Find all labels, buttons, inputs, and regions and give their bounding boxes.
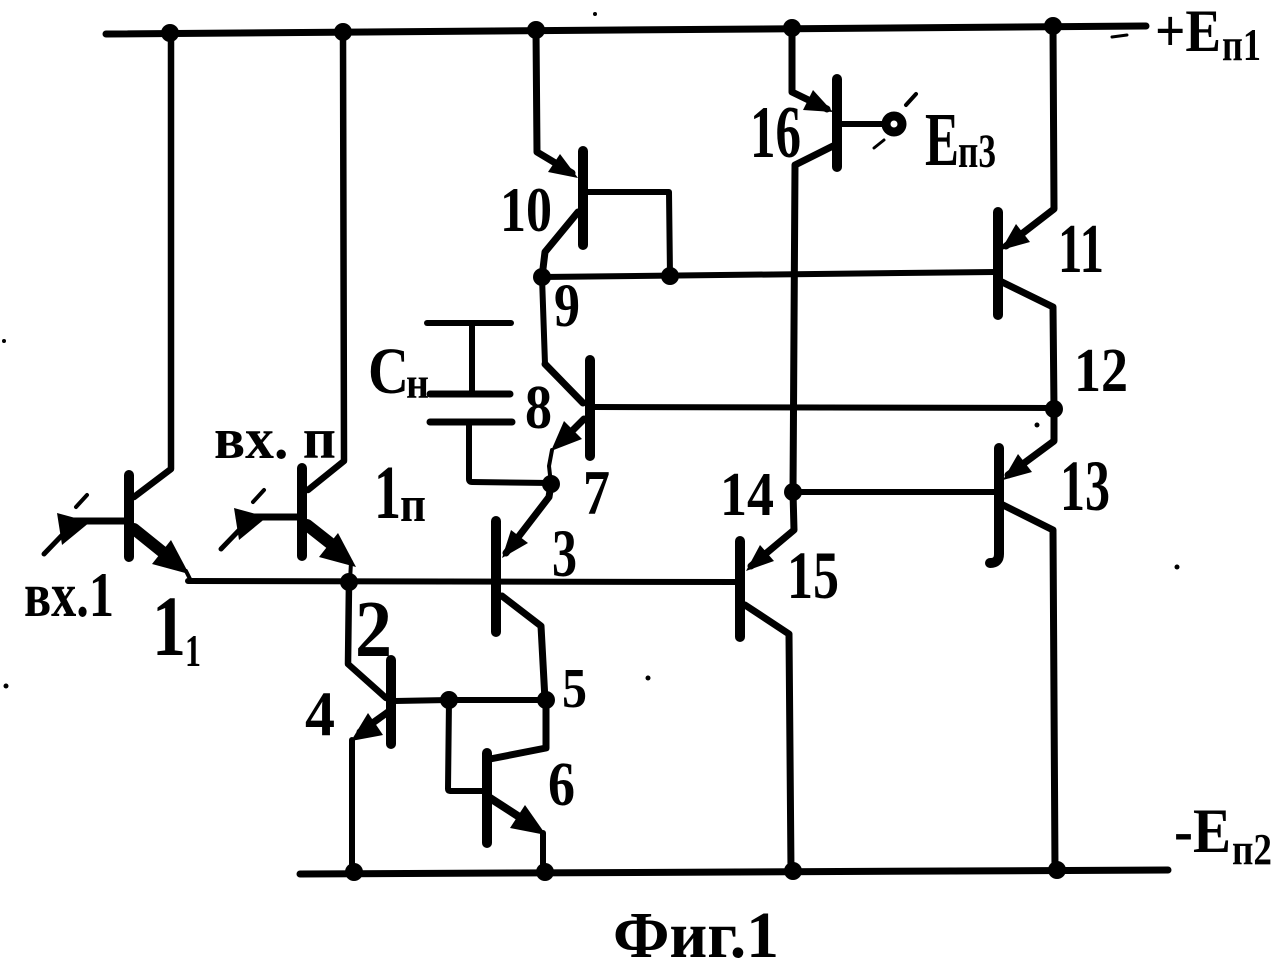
svg-text:8: 8	[525, 374, 552, 442]
svg-text:Фиг.1: Фиг.1	[613, 899, 779, 968]
svg-text:С: С	[368, 335, 409, 408]
junction top rail / T1-1 collector	[161, 24, 179, 42]
svg-text:12: 12	[1074, 337, 1128, 405]
svg-text:6: 6	[548, 751, 575, 819]
label 1p	[374, 451, 426, 535]
label -Ep2	[1174, 795, 1272, 874]
svg-text:9: 9	[554, 273, 580, 340]
svg-text:13: 13	[1060, 446, 1110, 526]
wire node 14 to T13 base	[793, 489, 995, 495]
svg-text:7: 7	[583, 457, 610, 528]
svg-text:5: 5	[562, 658, 587, 720]
transistor 16 PNP	[792, 28, 884, 492]
svg-text:1: 1	[374, 451, 401, 535]
junction T10 base drop	[661, 267, 679, 285]
svg-text:1: 1	[185, 625, 201, 676]
node 7 junction	[542, 475, 560, 493]
svg-text:16: 16	[750, 92, 801, 174]
transistor 6 NPN	[448, 700, 546, 870]
junction top rail / T10 emitter	[527, 21, 545, 39]
wire 2 down to T4	[348, 582, 386, 698]
junction wire9 top	[533, 268, 551, 286]
svg-text:11: 11	[1058, 211, 1104, 288]
label Cn	[368, 335, 429, 408]
junction bottom rail / T15 collector	[784, 862, 802, 880]
transistor 8 NPN	[545, 360, 1054, 484]
junction bottom rail / T13 collector	[1048, 861, 1066, 879]
wire T10 to T11 base	[542, 272, 995, 277]
label 1-1	[152, 578, 201, 676]
svg-text:1: 1	[152, 578, 186, 674]
junction bottom rail / T4 emitter	[345, 863, 363, 881]
svg-text:п1: п1	[1222, 19, 1261, 70]
svg-text:п3: п3	[958, 125, 996, 178]
svg-text:вх. п: вх. п	[214, 406, 336, 471]
wire +Ep1 top rail	[106, 26, 1146, 37]
junction top rail / T1p collector	[334, 23, 352, 41]
svg-text:+Е: +Е	[1155, 0, 1221, 64]
transistor 13 PNP	[990, 409, 1055, 870]
svg-text:вх.1: вх.1	[24, 559, 114, 630]
capacitor Cn	[427, 323, 551, 483]
svg-text:4: 4	[305, 678, 335, 749]
transistor 4 NPN	[352, 660, 449, 872]
input arrow vh.p	[221, 490, 264, 549]
junction bottom rail / T6 emitter	[536, 863, 554, 881]
wire base bus to T3 T15	[188, 581, 736, 582]
node 12 junction	[1045, 400, 1063, 418]
svg-text:14: 14	[720, 461, 774, 529]
transistor 11 PNP	[998, 26, 1054, 409]
svg-text:н: н	[406, 359, 429, 408]
svg-text:15: 15	[787, 537, 839, 613]
node 14 junction	[784, 483, 802, 501]
transistor 1-1 input NPN	[64, 33, 191, 581]
input arrow vh.1	[44, 495, 87, 554]
junction top rail / T16 emitter	[783, 19, 801, 37]
svg-text:п2: п2	[1232, 825, 1272, 874]
wire T4 base to node 5	[449, 697, 546, 703]
label +Ep1	[1155, 0, 1261, 70]
svg-text:п: п	[400, 476, 426, 532]
terminal Ep3 circle	[874, 94, 916, 148]
svg-text:3: 3	[552, 515, 577, 591]
junction top rail / T11 emitter	[1044, 17, 1062, 35]
svg-text:10: 10	[500, 174, 552, 245]
svg-text:Е: Е	[925, 98, 959, 182]
scan specks	[2, 12, 1180, 689]
transistor 3 PNP	[496, 484, 551, 700]
transistor 10 PNP diode-connected	[536, 30, 670, 277]
wire 9 T10 collector to T8 collector	[542, 277, 545, 364]
junction bus / node 2	[340, 573, 358, 591]
node 5 junction	[537, 691, 555, 709]
transistor 15 PNP	[740, 492, 794, 871]
label Ep3	[925, 98, 996, 182]
svg-text:-Е: -Е	[1174, 795, 1231, 866]
wire -Ep2 bottom rail	[300, 870, 1168, 874]
transistor 1p input NPN	[239, 32, 351, 581]
junction T4 base / T6 base	[440, 691, 458, 709]
